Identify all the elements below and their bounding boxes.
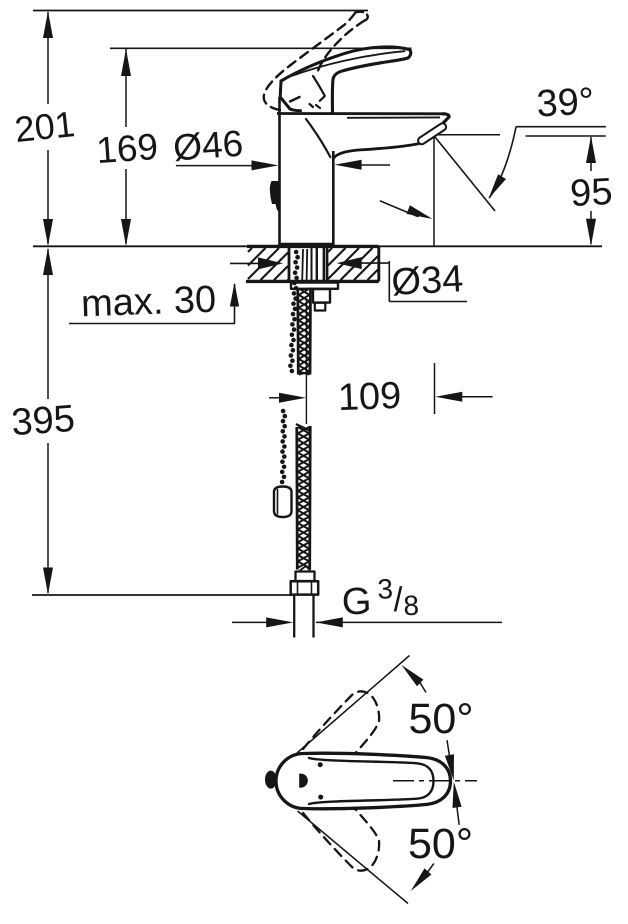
dashed raised lever outer edge (264, 13, 356, 111)
39° horizontal reference (516, 126, 606, 128)
handle top view inner edge (309, 758, 434, 804)
flexible hose upper segment (298, 288, 311, 375)
bottom view centre line (393, 780, 477, 782)
faucet body left edge (278, 97, 281, 246)
Ø34 label bracket (389, 261, 467, 302)
svg-text:8: 8 (403, 590, 420, 622)
handle knob on body (265, 771, 277, 789)
svg-text:G: G (341, 581, 372, 624)
svg-text:95: 95 (569, 171, 613, 215)
spout top inner line (347, 116, 440, 118)
upper 50° arc arrow at ray (401, 665, 425, 692)
dashed raised lever underside edge (318, 21, 365, 71)
connection pipe G3/8 (294, 596, 313, 638)
Ø34 arrow left (230, 257, 283, 269)
pull rod chain upper segment (288, 250, 300, 374)
svg-text:201: 201 (13, 103, 77, 150)
outlet vertical projection line (433, 137, 436, 414)
pull rod chain lower segment (280, 409, 287, 485)
dimension line 201 (43, 11, 53, 246)
hose connector (291, 566, 319, 595)
faucet base seat (280, 243, 333, 246)
dimension line 95 (586, 136, 596, 246)
dashed raised lever tip (356, 12, 368, 21)
handle swing dashed outline lower (303, 805, 379, 871)
counter slab cross-section left part (246, 246, 379, 281)
dashed raised lever neck dashes (290, 97, 320, 108)
handle top view outline (276, 753, 451, 809)
Ø34 arrow right (337, 257, 389, 269)
handle dot upper (318, 762, 323, 767)
label 50° lower (408, 820, 473, 868)
label 169 (95, 126, 159, 171)
lever inner contour (313, 76, 325, 101)
label Ø34 (390, 258, 464, 304)
spout underside curve (333, 144, 419, 159)
water flow diagonal (434, 136, 495, 212)
label 109 (337, 375, 402, 419)
95 reference line at spout outlet (430, 135, 606, 136)
lower 50° arc arrow at ray (411, 864, 434, 891)
aerator slot (417, 122, 448, 146)
svg-text:50°: 50° (408, 695, 473, 743)
label 95 (569, 171, 613, 215)
label 201 (13, 103, 77, 150)
mounting washer and nut (291, 283, 338, 311)
handle swing dashed outline upper (303, 691, 379, 757)
svg-text:39°: 39° (536, 81, 596, 126)
faucet body top line (277, 112, 446, 115)
label Ø46 (172, 123, 245, 169)
reference line 169 (lever height) (110, 47, 412, 49)
body-spout fillet curve (306, 119, 330, 157)
upper 50° arc arrow at axis (445, 741, 454, 781)
body right edge (332, 151, 335, 246)
svg-text:50°: 50° (408, 820, 473, 868)
svg-text:395: 395 (10, 398, 76, 444)
max 30 leader (69, 283, 239, 324)
counter top line (33, 245, 602, 247)
lever handle outline (280, 47, 411, 113)
G3/8 dimension arrows (232, 617, 502, 627)
lower 50° arc arrow at axis (453, 782, 462, 825)
50° ray lower (298, 811, 408, 904)
hose centre line (305, 300, 307, 424)
tailpiece tube in hole (302, 248, 324, 295)
spray angle curved arrow (381, 201, 433, 219)
label max. 30 (80, 279, 217, 326)
cartridge mark (299, 774, 308, 788)
svg-text:Ø46: Ø46 (172, 123, 245, 169)
temperature stop boss (270, 181, 280, 212)
dimension line 169 (121, 49, 131, 246)
pull rod knob (274, 487, 292, 518)
dimension line 395 (43, 248, 53, 595)
flexible hose lower segment (297, 425, 310, 570)
svg-text:109: 109 (337, 375, 402, 419)
Ø46 arrow right (335, 160, 390, 170)
39° angle arc (489, 127, 517, 199)
dimension 109 arrows (269, 392, 493, 403)
handle dot lower (318, 795, 323, 800)
Ø46 arrow left (176, 160, 279, 170)
top reference line (lever raised height) (33, 10, 368, 12)
label 395 (10, 398, 76, 444)
svg-text:Ø34: Ø34 (390, 258, 464, 304)
label G3/8 (341, 573, 419, 623)
50° ray upper (297, 656, 410, 754)
label 39° (536, 81, 596, 126)
label 50° upper (408, 695, 473, 743)
lever front edge line (293, 51, 405, 75)
svg-text:169: 169 (95, 126, 159, 171)
svg-text:max. 30: max. 30 (80, 279, 217, 326)
spout tip and end face (431, 114, 449, 136)
bottom reference line 395 (32, 594, 292, 596)
svg-text:3: 3 (377, 573, 394, 605)
